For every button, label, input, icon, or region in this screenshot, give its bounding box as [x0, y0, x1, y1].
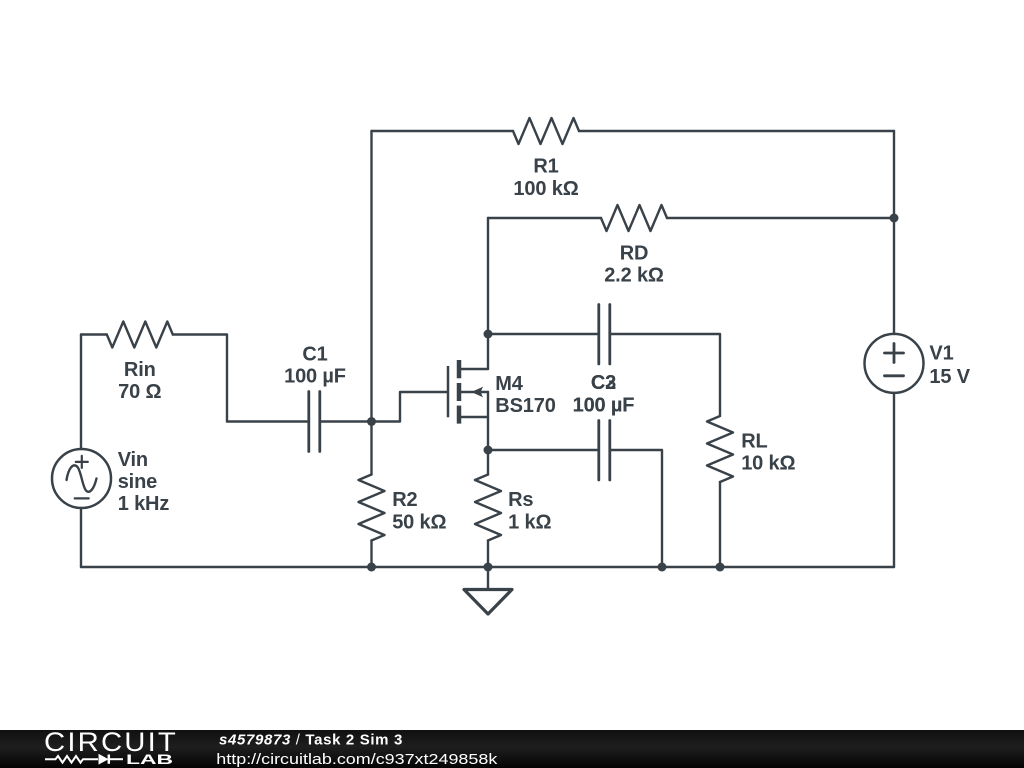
svg-text:RL: RL: [741, 430, 767, 452]
footer bar: [0, 730, 1024, 768]
wire Rs to ground rail: [487, 541, 489, 568]
transistor M4 body arrow: [471, 387, 483, 398]
node ground rail RL junction: [716, 563, 725, 572]
voltage source V1 minus: [885, 374, 904, 377]
svg-text:R1: R1: [533, 156, 558, 178]
svg-text:1 kHz: 1 kHz: [118, 493, 170, 515]
resistor R1: [513, 118, 579, 144]
voltage source V1 plus: [885, 344, 904, 363]
wire ground rail: [81, 566, 894, 568]
svg-text:10 kΩ: 10 kΩ: [741, 453, 795, 475]
svg-text:R2: R2: [392, 489, 417, 511]
capacitor C1: [309, 392, 320, 452]
wire C1 to gate node: [320, 420, 372, 422]
wire drain node to C2: [488, 333, 599, 335]
svg-text:LAB: LAB: [126, 751, 173, 767]
svg-text:100 µF: 100 µF: [573, 394, 635, 416]
svg-text:Vin: Vin: [118, 449, 148, 471]
logo resistor-diode squiggle: [45, 755, 123, 764]
resistor RD: [601, 205, 667, 231]
svg-text:Rs: Rs: [508, 489, 533, 511]
svg-text:2.2 kΩ: 2.2 kΩ: [604, 265, 664, 287]
wire drain vertical: [487, 218, 489, 369]
svg-text:RD: RD: [620, 242, 649, 264]
svg-text:M4: M4: [495, 373, 524, 395]
svg-text:1 kΩ: 1 kΩ: [508, 511, 551, 533]
wire top rail left segment: [372, 130, 514, 132]
wire R2 to ground rail: [370, 541, 372, 568]
svg-text:100 µF: 100 µF: [284, 366, 346, 388]
wire gate jog to M4 gate: [372, 392, 449, 422]
node drain junction: [484, 330, 493, 339]
wire RL to ground rail: [719, 482, 721, 567]
transistor M4 source lead: [461, 416, 488, 418]
svg-text:V1: V1: [929, 342, 953, 364]
voltage source Vin circle: [52, 449, 111, 508]
wire right rail lower: [893, 393, 895, 567]
wire RD left corner (drain column top): [488, 217, 601, 219]
wire Vin bottom lead: [80, 508, 82, 567]
node ground rail R2 junction: [367, 563, 376, 572]
wire RD to right rail: [667, 217, 894, 219]
capacitor C3: [599, 421, 610, 481]
resistor Rin: [107, 322, 173, 348]
wire Rin to corner: [173, 335, 227, 422]
wire top rail right segment: [579, 130, 894, 132]
svg-text:50 kΩ: 50 kΩ: [392, 511, 446, 533]
node source junction: [484, 446, 493, 455]
wire source node to C3: [488, 449, 599, 451]
voltage source Vin minus: [75, 497, 89, 499]
wire right rail upper: [893, 131, 895, 334]
wire top-left vertical (gate node to R1): [370, 131, 372, 422]
node ground rail C3 junction: [658, 563, 667, 572]
svg-text:15 V: 15 V: [929, 366, 970, 388]
svg-text:http://circuitlab.com/c937xt24: http://circuitlab.com/c937xt249858k: [216, 751, 498, 768]
capacitor C2: [599, 305, 610, 365]
transistor M4 channel bars: [457, 360, 462, 424]
voltage source Vin plus: [76, 456, 88, 468]
voltage source V1 circle: [865, 334, 924, 393]
wire Vin top to Rin: [81, 333, 107, 335]
logo diode triangle: [99, 754, 109, 765]
wire C3 right to ground rail: [610, 450, 662, 567]
svg-text:BS170: BS170: [495, 395, 555, 417]
svg-text:Rin: Rin: [124, 359, 156, 381]
wire C2 to RL top: [610, 334, 720, 416]
node right rail junction: [890, 214, 899, 223]
transistor M4 gate bar: [447, 366, 450, 417]
resistor Rs: [475, 475, 501, 541]
svg-text:100 kΩ: 100 kΩ: [513, 178, 578, 200]
transistor M4 body lead: [461, 391, 488, 393]
wire corner to C1: [227, 420, 309, 422]
resistor R2: [359, 475, 385, 541]
svg-text:s4579873 / Task 2 Sim 3: s4579873 / Task 2 Sim 3: [219, 732, 403, 749]
svg-text:sine: sine: [118, 471, 157, 493]
svg-text:C2: C2: [591, 372, 616, 394]
wire Vin top lead: [80, 335, 82, 450]
node gate junction: [367, 417, 376, 426]
transistor M4 drain lead: [461, 368, 488, 370]
svg-text:70 Ω: 70 Ω: [118, 381, 161, 403]
svg-text:C1: C1: [302, 343, 327, 365]
wire source vertical: [487, 392, 489, 475]
voltage source Vin sine: [67, 465, 97, 491]
wire gate node to R2: [370, 422, 372, 475]
ground symbol: [487, 567, 489, 590]
resistor RL: [707, 416, 733, 482]
node ground rail Rs junction: [484, 563, 493, 572]
